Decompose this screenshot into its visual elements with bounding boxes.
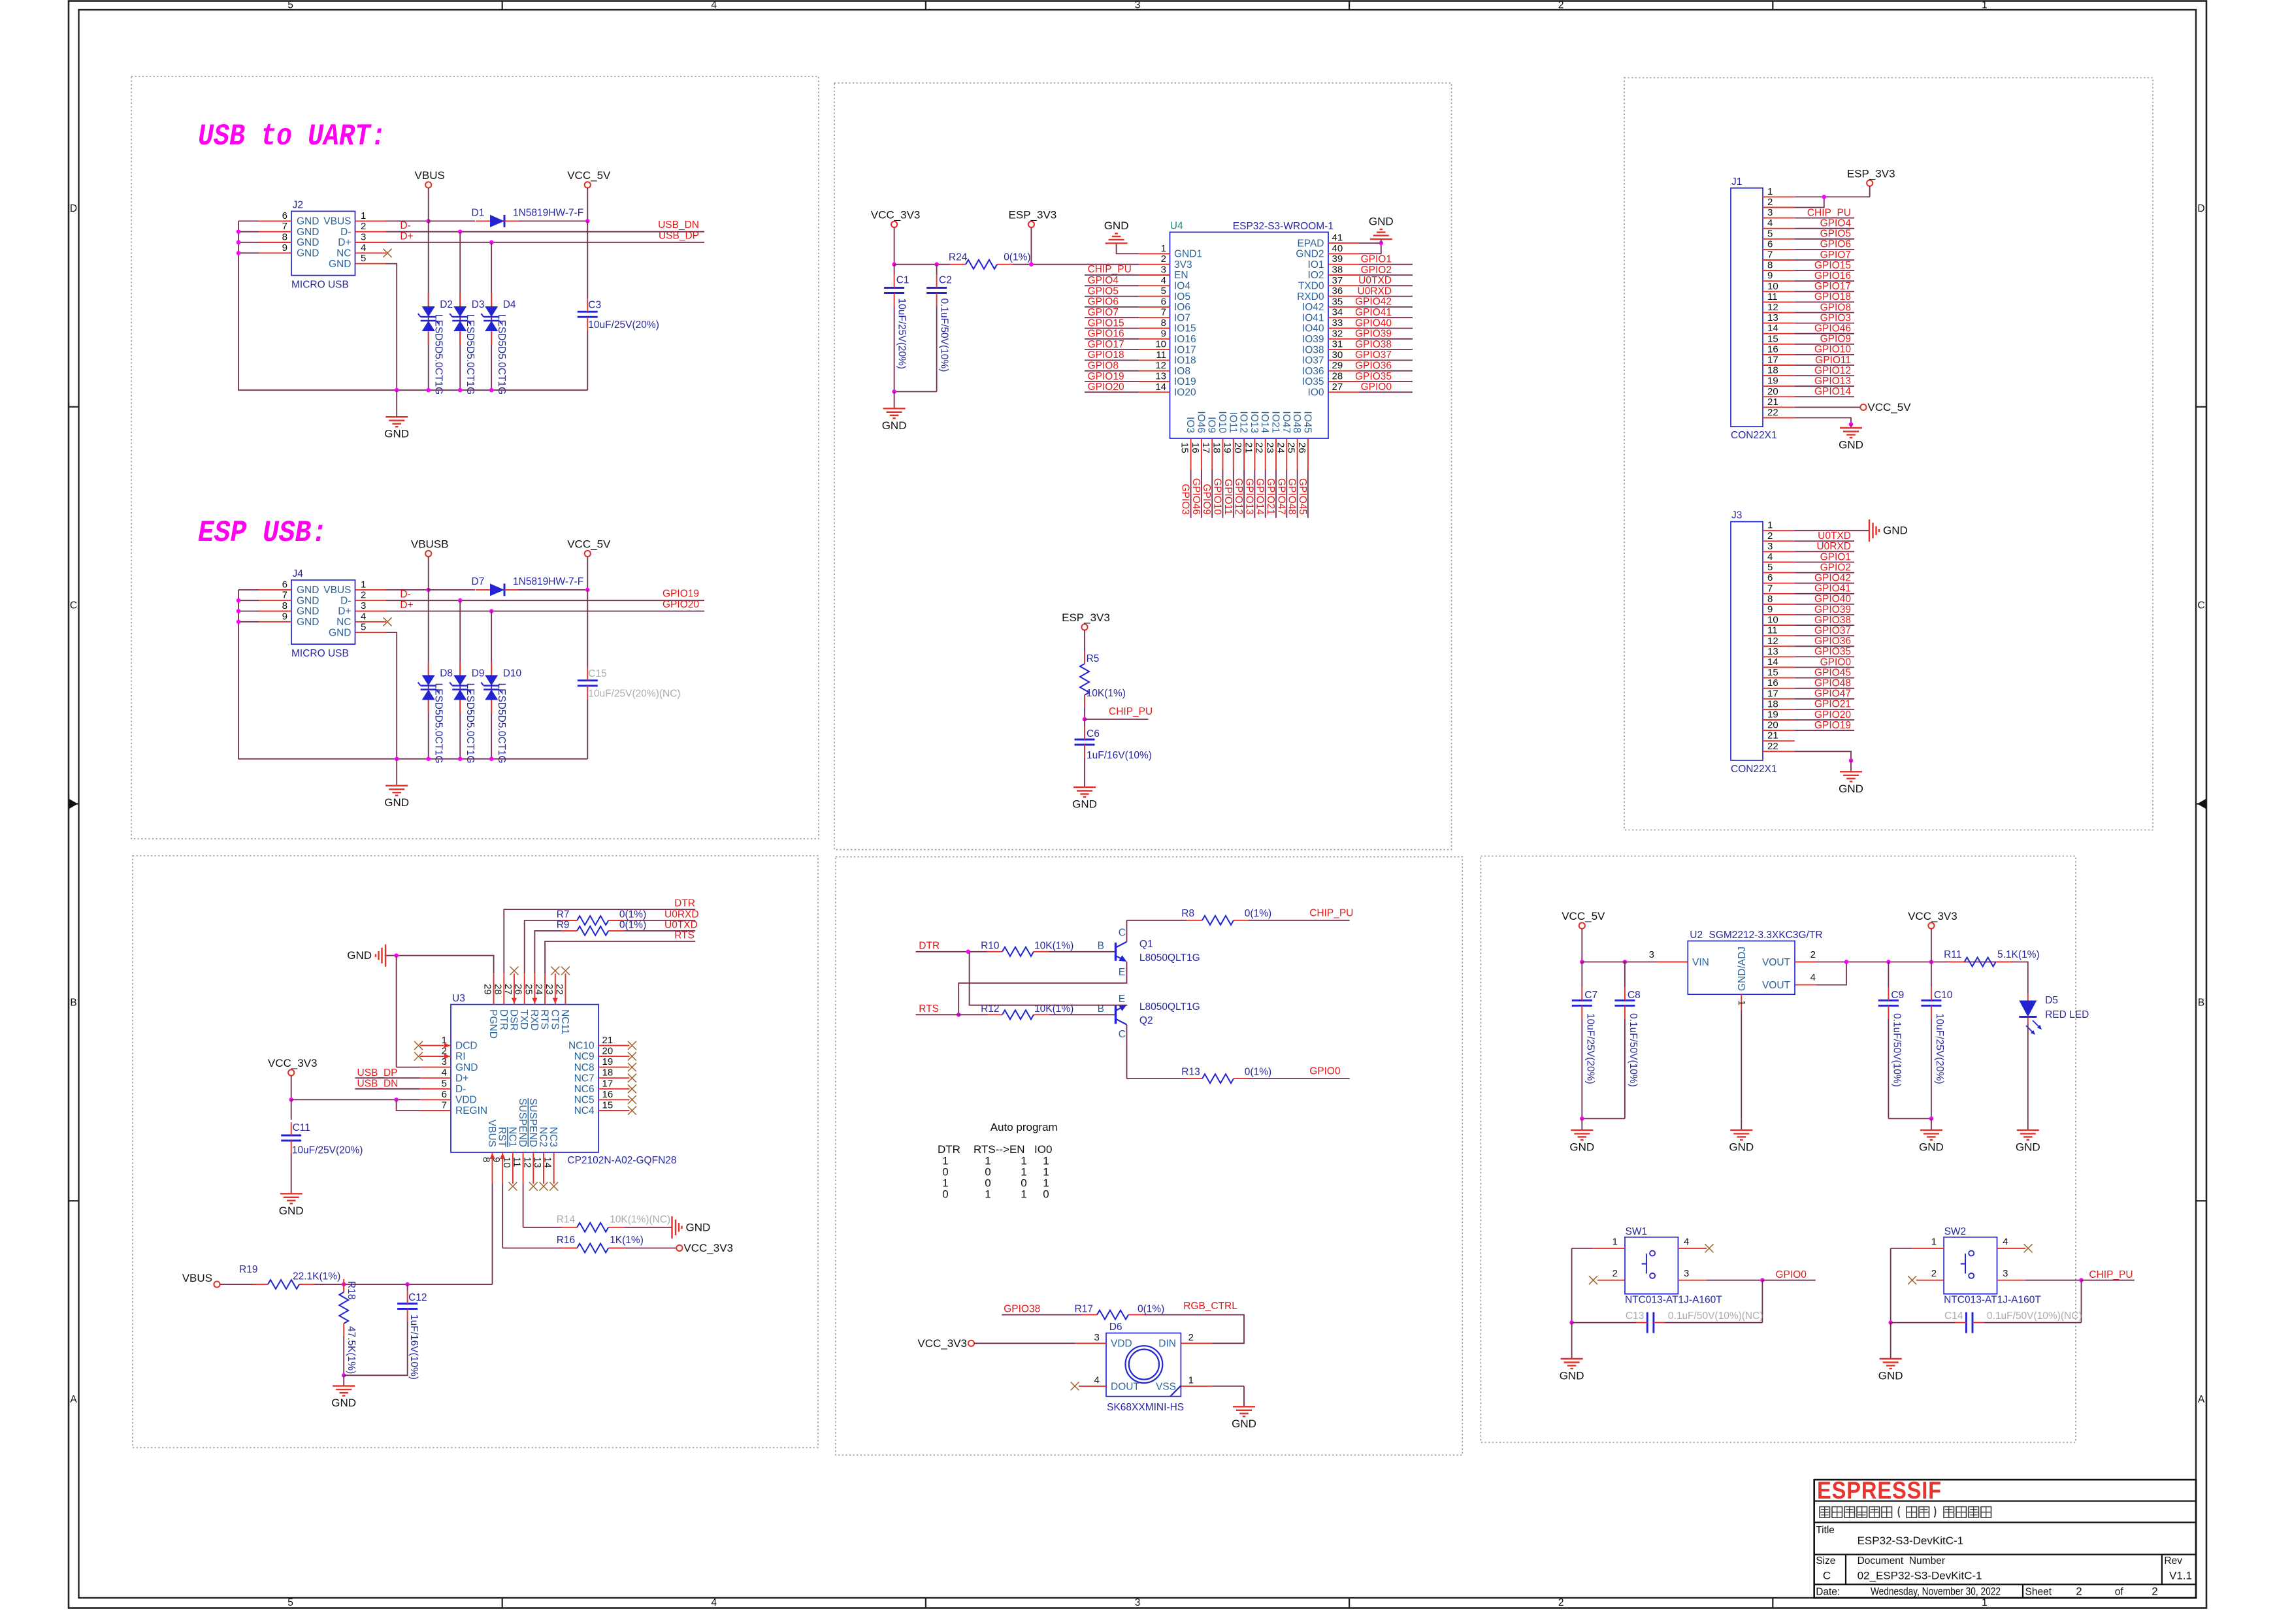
wire [1795, 688, 1854, 689]
frame tick [925, 1, 926, 10]
wire [1126, 920, 1128, 942]
svg-text:GND: GND [455, 1062, 478, 1073]
svg-text:C: C [1119, 928, 1126, 939]
svg-text:GPIO10: GPIO10 [1212, 478, 1223, 515]
svg-text:5: 5 [287, 0, 293, 11]
wire [1360, 381, 1413, 382]
svg-text:0(1%): 0(1%) [1245, 908, 1271, 919]
wire [1931, 929, 1932, 962]
svg-text:1uF/16V(10%): 1uF/16V(10%) [408, 1314, 419, 1380]
svg-text:SGM2212-3.3XKC3G/TR: SGM2212-3.3XKC3G/TR [1709, 930, 1823, 941]
net label RTS [674, 930, 695, 941]
pin number 6 [1767, 238, 1773, 250]
svg-text:0(1%): 0(1%) [619, 909, 646, 920]
pin 31 stub [1328, 349, 1360, 350]
svg-text:22: 22 [1254, 442, 1265, 453]
wire [1795, 354, 1854, 355]
svg-text:GND: GND [1729, 1141, 1754, 1153]
svg-text:Size: Size [1816, 1555, 1835, 1567]
pin 1 stub [1139, 253, 1170, 254]
pin number 13 [1767, 646, 1778, 657]
TVS diode D4 (LESD5D5.0CT1G) [481, 293, 502, 344]
pin name IO37 [1302, 355, 1324, 366]
svg-text:NC1: NC1 [506, 1127, 517, 1147]
svg-text:B: B [2198, 997, 2204, 1008]
svg-text:IO7: IO7 [1174, 312, 1190, 323]
net label GPIO3 [1820, 312, 1851, 323]
pin name D- [340, 595, 351, 606]
svg-text:5: 5 [361, 622, 366, 633]
power port VCC_5V [567, 169, 611, 188]
no-connect X [529, 1182, 538, 1191]
net label GPIO42 [1814, 573, 1851, 584]
svg-text:33: 33 [1332, 317, 1343, 329]
value 10uF/25V(20%)(NC) [588, 689, 680, 700]
resistor R11 [1949, 958, 2012, 967]
pin 10 stub [512, 1152, 514, 1184]
pin name D+ [455, 1073, 468, 1084]
svg-text:14: 14 [1767, 657, 1778, 668]
junction [1886, 960, 1891, 964]
pin 11 stub [1763, 635, 1795, 636]
wire [1816, 962, 2012, 963]
svg-text:IO9: IO9 [1206, 417, 1217, 433]
svg-text:4: 4 [1094, 1374, 1100, 1386]
svg-text:22.1K(1%): 22.1K(1%) [293, 1271, 340, 1282]
table cell [942, 1155, 948, 1167]
pin number 16 [1767, 344, 1778, 355]
net label GPIO37 [1355, 349, 1392, 361]
svg-text:CHIP_PU: CHIP_PU [2089, 1269, 2133, 1280]
svg-text:GND1: GND1 [1174, 249, 1202, 260]
svg-text:IO20: IO20 [1174, 387, 1196, 398]
pin number 5 [361, 253, 366, 264]
value L8050QLT1G [1139, 952, 1200, 964]
svg-text:GPIO0: GPIO0 [1820, 657, 1852, 668]
pin number 22 [1767, 407, 1778, 418]
svg-text:16: 16 [1767, 344, 1778, 355]
wire [386, 264, 397, 391]
pin name SUSPEND [527, 1098, 538, 1147]
pin 16 stub [1763, 354, 1795, 355]
value 1uF/16V(10%) [408, 1314, 419, 1380]
net label GPIO18 [1814, 291, 1851, 302]
svg-text:U0RXD: U0RXD [1357, 285, 1392, 297]
svg-text:C12: C12 [408, 1292, 427, 1303]
pin name PGND [487, 1009, 499, 1039]
pin 1 stub [420, 1045, 451, 1046]
svg-text:13: 13 [1767, 312, 1778, 323]
pin name VOUT [1762, 957, 1791, 968]
pin name GND [297, 585, 319, 596]
wire [1127, 920, 1187, 921]
wire [238, 231, 259, 233]
ground [672, 1216, 711, 1239]
svg-text:1: 1 [1982, 1597, 1988, 1608]
pin 25 stub [1297, 438, 1298, 469]
junction [458, 756, 463, 761]
transistor Q2 (L8050QLT1G) [1116, 1005, 1127, 1024]
value 0(1%) [1245, 908, 1271, 919]
wire [2082, 1280, 2135, 1281]
wire [1795, 333, 1854, 334]
table cell [1043, 1188, 1049, 1201]
pin number 8 [1767, 593, 1773, 604]
net label USB_DN [357, 1079, 399, 1090]
pin 9 stub [259, 252, 291, 253]
switch SW2 (NTC013-AT1J-A160T) [1944, 1237, 1997, 1294]
pin name GND [329, 627, 351, 638]
pin number 19 [1767, 709, 1778, 721]
svg-text:19: 19 [602, 1056, 614, 1067]
svg-text:GPIO14: GPIO14 [1814, 386, 1851, 397]
text company name (Chinese) [1820, 1507, 1830, 1518]
pin name IO2 [1308, 270, 1324, 281]
svg-text:R14: R14 [557, 1214, 576, 1225]
connector J4 (MICRO USB) [291, 580, 355, 644]
svg-text:A: A [2198, 1394, 2205, 1405]
net label U0TXD [1818, 530, 1851, 542]
pin name IO0 [1308, 387, 1324, 398]
wire [1795, 312, 1854, 314]
svg-text:CTS: CTS [549, 1009, 560, 1030]
no-connect X [508, 1182, 517, 1191]
wire [519, 589, 587, 591]
value CON22X1 [1731, 764, 1777, 775]
svg-text:U0TXD: U0TXD [1358, 275, 1392, 286]
pin number 17 [1767, 355, 1778, 366]
svg-text:5: 5 [361, 253, 366, 264]
pin 11 stub [1139, 359, 1170, 361]
svg-text:ESP32-S3-DevKitC-1: ESP32-S3-DevKitC-1 [1858, 1535, 1964, 1547]
refdes D10 [503, 668, 522, 679]
pin number 4 [1094, 1374, 1100, 1386]
value 1K(1%) [610, 1235, 644, 1246]
pin number 8 [282, 600, 287, 611]
text Rev [2164, 1555, 2182, 1567]
svg-text:10uF/25V(20%)(NC): 10uF/25V(20%)(NC) [588, 689, 680, 700]
wire [1931, 962, 1932, 988]
junction [1822, 195, 1827, 199]
pin number 25 [1286, 442, 1297, 453]
wire [1795, 196, 1870, 197]
wire [1581, 929, 1582, 962]
pin 9 stub [1763, 280, 1795, 282]
pin name DTR [498, 1009, 509, 1030]
svg-text:GND: GND [297, 595, 319, 606]
pin 28 stub [503, 973, 504, 1004]
svg-text:6: 6 [1161, 296, 1166, 307]
svg-text:1: 1 [1613, 1237, 1618, 1248]
pin number 2 [1161, 253, 1166, 265]
pin number 3 [1161, 265, 1166, 276]
pin 15 stub [1763, 344, 1795, 345]
svg-text:GPIO2: GPIO2 [1820, 562, 1851, 573]
svg-text:GND: GND [1232, 1418, 1256, 1430]
svg-text:7: 7 [282, 590, 287, 601]
pin 33 stub [1328, 328, 1360, 329]
pin 12 stub [1763, 645, 1795, 647]
no-connect X [2024, 1244, 2033, 1252]
pin name VBUS [323, 216, 351, 227]
pin number 17 [602, 1078, 614, 1089]
pin 9 stub [259, 621, 291, 623]
frame tick [502, 1, 503, 10]
svg-text:GPIO7: GPIO7 [1088, 307, 1119, 318]
title block divider [1814, 1554, 2196, 1555]
pin 6 stub [259, 220, 291, 221]
net label GPIO8 [1088, 361, 1119, 372]
wire [386, 589, 429, 591]
pin 2 stub [355, 231, 387, 233]
svg-text:35: 35 [1332, 296, 1343, 307]
wire [1581, 962, 1582, 988]
svg-text:GND: GND [1072, 798, 1097, 811]
value 0(1%) [1004, 252, 1030, 263]
pin number 32 [1332, 328, 1343, 339]
svg-text:IO45: IO45 [1302, 411, 1313, 433]
svg-text:GPIO3: GPIO3 [1820, 312, 1851, 323]
svg-text:GPIO18: GPIO18 [1814, 291, 1851, 302]
pin 7 stub [259, 600, 291, 601]
value 0.1uF/50V(10%) [1891, 1013, 1902, 1087]
svg-text:USB_DN: USB_DN [658, 219, 699, 231]
junction [489, 240, 494, 245]
pin number 9 [1767, 270, 1773, 282]
pin number 21 [1767, 730, 1778, 741]
wire [1085, 328, 1139, 329]
svg-text:4: 4 [711, 0, 717, 11]
pin 6 stub [259, 589, 291, 591]
wire [1002, 1314, 1081, 1316]
power port VCC_3V3 [676, 1242, 733, 1254]
wire [1761, 1280, 1763, 1323]
refdes J2 [293, 199, 303, 210]
net label GPIO1 [1820, 551, 1851, 562]
junction [426, 219, 431, 223]
pin number 11 [512, 1157, 523, 1167]
title block divider [2022, 1584, 2023, 1598]
wire [407, 1284, 408, 1290]
svg-text:GPIO21: GPIO21 [1814, 699, 1851, 710]
svg-text:VOUT: VOUT [1762, 957, 1791, 968]
pin number 23 [544, 984, 555, 995]
svg-text:37: 37 [1332, 275, 1343, 286]
no-connect X [628, 1096, 636, 1104]
svg-text:USB_DN: USB_DN [357, 1079, 399, 1090]
wire [502, 1184, 503, 1248]
wire [1795, 562, 1854, 563]
svg-text:4: 4 [361, 611, 366, 622]
svg-text:ESP_3V3: ESP_3V3 [1009, 209, 1057, 221]
svg-text:24: 24 [533, 984, 544, 995]
table cell [985, 1155, 990, 1167]
pin 2 stub [1916, 1280, 1944, 1281]
wire [1795, 751, 1851, 760]
refdes R7 [557, 909, 570, 920]
pin name IO38 [1302, 344, 1324, 355]
pin number 1 [1188, 1374, 1194, 1386]
svg-text:GPIO4: GPIO4 [1820, 218, 1852, 229]
wire [1211, 469, 1213, 517]
svg-text:C: C [2197, 600, 2204, 611]
svg-text:NC8: NC8 [574, 1062, 595, 1073]
frame tick [69, 406, 79, 408]
pin 1 stub [1912, 1248, 1944, 1249]
wire [1144, 1315, 1244, 1344]
svg-text:8: 8 [282, 600, 287, 611]
pin 9 stub [1763, 614, 1795, 615]
wire [429, 220, 475, 221]
svg-text:GND: GND [1569, 1141, 1594, 1153]
svg-text:6: 6 [442, 1089, 447, 1100]
input pin arrow [512, 998, 517, 1004]
wire [1795, 375, 1854, 376]
wire [1665, 1322, 1762, 1324]
value 0.1uF/50V(10%)(NC) [1668, 1310, 1763, 1322]
pin 3 stub [1763, 218, 1795, 219]
junction [957, 1013, 961, 1017]
wire [386, 220, 429, 221]
svg-text:GND: GND [384, 796, 409, 809]
pin number 27 [1332, 382, 1343, 393]
pin name NC6 [574, 1084, 595, 1095]
wire [238, 242, 259, 243]
pin 23 stub [555, 973, 556, 1004]
value LESD5D5.0CT1G [496, 683, 507, 764]
svg-text:GPIO38: GPIO38 [1004, 1304, 1040, 1315]
pin 13 stub [543, 1152, 544, 1184]
wire [2027, 1024, 2029, 1118]
wire [1049, 951, 1115, 952]
pin name IO18 [1174, 355, 1196, 366]
pin name D+ [338, 237, 351, 248]
resistor R10 [987, 947, 1049, 956]
RGB LED D6 (SK68XXMINI-HS) [1106, 1333, 1181, 1397]
IC U3 (CP2102N) [451, 1005, 598, 1152]
svg-text:D-: D- [455, 1084, 466, 1095]
pin number 20 [1767, 720, 1778, 731]
pin 27 stub [1328, 391, 1360, 393]
svg-text:GPIO48: GPIO48 [1814, 678, 1851, 689]
svg-text:GPIO42: GPIO42 [1814, 573, 1851, 584]
net label U0RXD [664, 909, 699, 920]
wire [385, 956, 494, 974]
pin name B [1098, 940, 1104, 951]
svg-text:DCD: DCD [455, 1041, 478, 1052]
pin number 29 [1332, 360, 1343, 371]
pin name 3V3 [1174, 259, 1192, 270]
pin 19 stub [1763, 385, 1795, 387]
pin name RXD [529, 1009, 540, 1031]
pin 20 stub [1243, 438, 1245, 469]
svg-text:IO48: IO48 [1291, 411, 1302, 433]
pin number 40 [1332, 243, 1343, 254]
svg-text:GND: GND [686, 1221, 711, 1233]
net label GPIO7 [1088, 307, 1119, 318]
svg-text:12: 12 [1767, 302, 1778, 313]
ground [1369, 216, 1394, 244]
pin name D- [340, 227, 351, 238]
net label GPIO11 [1815, 355, 1851, 366]
svg-text:17: 17 [1767, 355, 1778, 366]
net label GPIO0 [1309, 1066, 1341, 1077]
svg-text:GPIO15: GPIO15 [1814, 260, 1851, 271]
wire [1795, 656, 1854, 657]
pin number 6 [1767, 572, 1773, 583]
svg-text:U0RXD: U0RXD [664, 909, 699, 920]
pin name IO1 [1308, 259, 1324, 270]
pin number 17 [1767, 688, 1778, 699]
ground [1104, 219, 1129, 248]
pin number 39 [1332, 253, 1343, 265]
text ESP32-S3-DevKitC-1 [1858, 1535, 1964, 1547]
pin 4 stub [420, 1077, 451, 1079]
pin name GND [297, 606, 319, 617]
svg-text:GPIO20: GPIO20 [663, 599, 699, 610]
svg-text:J4: J4 [293, 568, 304, 579]
frame tick [2196, 406, 2206, 408]
pin 5 stub [355, 263, 387, 265]
wire [1571, 1323, 1573, 1339]
title block divider [2161, 1555, 2163, 1585]
svg-text:ESPRESSIF: ESPRESSIF [1817, 1477, 1942, 1504]
pin 27 stub [514, 973, 515, 1004]
pin 23 stub [1275, 438, 1277, 469]
pin 1 stub [355, 220, 387, 221]
pin 8 stub [259, 611, 291, 612]
pin name DCD [455, 1041, 478, 1052]
pin number 13 [1155, 371, 1166, 382]
svg-text:D+: D+ [338, 606, 351, 617]
pin name IO48 [1291, 411, 1302, 433]
svg-text:Date:: Date: [1816, 1587, 1840, 1598]
wire [1049, 1014, 1115, 1015]
pin name RTS [539, 1009, 550, 1030]
value MICRO USB [291, 648, 349, 659]
pin 38 stub [1328, 274, 1360, 276]
svg-text:11: 11 [512, 1157, 523, 1167]
svg-text:D-: D- [340, 595, 351, 606]
svg-text:19: 19 [1222, 442, 1233, 453]
pin number 1 [1613, 1237, 1618, 1248]
svg-text:GPIO47: GPIO47 [1814, 689, 1851, 700]
no-connect X [561, 967, 570, 975]
svg-text:D-: D- [340, 227, 351, 238]
pin 29 stub [1328, 370, 1360, 372]
net label CHIP_PU [1109, 706, 1153, 717]
svg-text:GPIO13: GPIO13 [1814, 376, 1851, 387]
wire [1816, 962, 1846, 985]
svg-text:12: 12 [1155, 360, 1166, 371]
svg-text:31: 31 [1332, 339, 1343, 350]
svg-text:GND: GND [297, 617, 319, 628]
pin 6 stub [1763, 249, 1795, 250]
junction [934, 262, 939, 267]
svg-text:17: 17 [1200, 442, 1211, 453]
svg-text:GPIO4: GPIO4 [1088, 275, 1119, 286]
wire [1795, 593, 1854, 594]
net label GPIO17 [1088, 339, 1124, 350]
net label GPIO2 [1361, 265, 1392, 276]
svg-text:CHIP_PU: CHIP_PU [1088, 264, 1132, 275]
pin 14 stub [553, 1152, 555, 1184]
net label GPIO13 [1814, 376, 1851, 387]
svg-text:1: 1 [1931, 1237, 1937, 1248]
svg-text:5: 5 [1767, 228, 1773, 239]
pin 4 stub [355, 252, 387, 253]
ground [1839, 760, 1863, 795]
